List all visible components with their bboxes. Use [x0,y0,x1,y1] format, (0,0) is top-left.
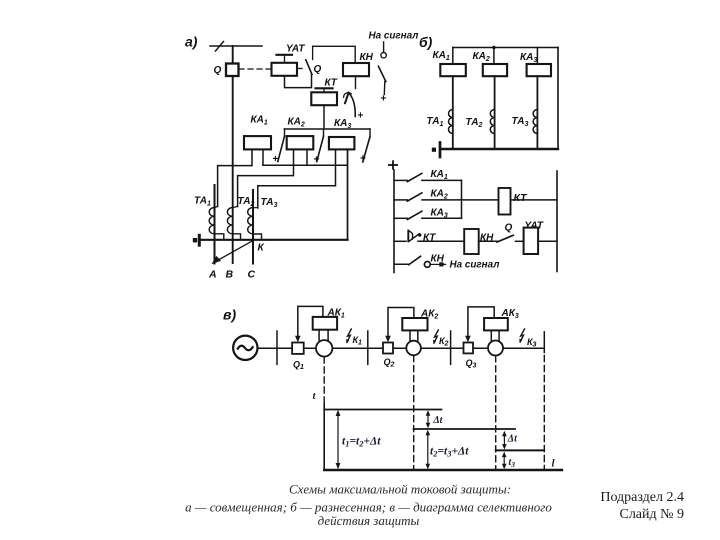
svg-text:Подраздел 2.4: Подраздел 2.4 [600,490,684,505]
svg-text:Q3: Q3 [466,358,477,370]
svg-text:В: В [226,269,234,281]
svg-text:КА3: КА3 [334,118,351,130]
svg-text:КН: КН [360,52,374,63]
svg-text:КТ: КТ [514,192,529,204]
svg-text:действия защиты: действия защиты [318,513,420,528]
svg-text:К3: К3 [527,337,537,349]
svg-text:ТА2: ТА2 [466,117,483,129]
svg-text:С: С [248,269,256,281]
svg-text:Q1: Q1 [293,360,304,372]
svg-text:+: + [273,154,279,165]
svg-text:ТА1: ТА1 [194,196,211,208]
svg-text:АК2: АК2 [420,309,438,321]
svg-text:К1: К1 [353,335,363,347]
svg-text:КА1: КА1 [251,115,268,127]
svg-text:Δt: Δt [432,415,443,426]
svg-text:К: К [258,243,265,254]
svg-text:Q: Q [214,65,222,76]
svg-text:Схемы максимальной токовой защ: Схемы максимальной токовой защиты: [289,482,511,497]
svg-text:Слайд № 9: Слайд № 9 [619,507,684,522]
svg-text:Q: Q [505,223,513,234]
svg-text:КН: КН [431,254,445,265]
svg-text:Q: Q [314,64,322,75]
svg-text:КА3: КА3 [520,52,537,64]
svg-text:ТА2: ТА2 [238,196,255,208]
svg-text:t3: t3 [509,457,516,469]
svg-text:АК3: АК3 [501,308,519,320]
svg-text:t1=t2+Δt: t1=t2+Δt [342,436,381,449]
svg-text:YAT: YAT [286,44,305,55]
svg-text:ТА1: ТА1 [427,116,444,128]
svg-text:t: t [313,390,317,402]
svg-text:+: + [360,154,366,165]
svg-text:А: А [208,269,217,281]
svg-text:б): б) [419,34,433,50]
svg-text:На сигнал: На сигнал [369,31,419,42]
svg-text:КТ: КТ [325,78,338,89]
svg-text:t2=t3+Δt: t2=t3+Δt [430,446,469,459]
svg-text:Δt: Δt [507,434,518,445]
svg-text:К2: К2 [439,336,449,348]
svg-text:+: + [381,94,387,105]
svg-text:КТ: КТ [423,233,436,244]
svg-text:ТА3: ТА3 [512,116,529,128]
svg-text:+: + [358,111,364,122]
svg-text:КА1: КА1 [433,50,450,62]
svg-text:ТА3: ТА3 [261,197,278,209]
svg-text:а): а) [185,34,198,50]
svg-text:YAT: YAT [525,221,544,232]
svg-text:КА2: КА2 [473,51,490,63]
svg-text:КА3: КА3 [431,208,448,220]
svg-text:+: + [314,155,320,166]
svg-text:КА1: КА1 [431,169,448,181]
svg-text:КА2: КА2 [431,189,448,201]
svg-text:l: l [552,458,556,470]
svg-text:КА2: КА2 [288,117,305,129]
svg-text:АК1: АК1 [327,308,345,320]
svg-text:На сигнал: На сигнал [450,259,500,270]
svg-text:КН: КН [480,233,494,244]
svg-text:в): в) [223,307,236,323]
svg-text:Q2: Q2 [384,357,395,369]
